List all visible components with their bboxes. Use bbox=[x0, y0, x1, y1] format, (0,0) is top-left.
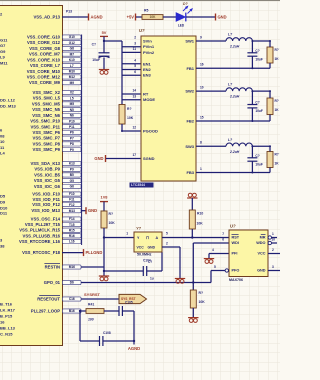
svg-text:LTC3544: LTC3544 bbox=[131, 183, 145, 187]
svg-text:12: 12 bbox=[132, 126, 136, 130]
svg-text:2: 2 bbox=[134, 36, 136, 40]
svg-text:4: 4 bbox=[212, 248, 214, 252]
svg-text:C?: C? bbox=[92, 43, 96, 47]
svg-text:5: 5 bbox=[214, 265, 216, 269]
svg-text:14: 14 bbox=[132, 89, 136, 93]
svg-text:MR: MR bbox=[260, 236, 266, 240]
svg-text:38: 38 bbox=[0, 244, 5, 249]
svg-text:VSS_CORE_M10: VSS_CORE_M10 bbox=[27, 69, 61, 74]
svg-text:2: 2 bbox=[166, 241, 168, 245]
svg-text:R?: R? bbox=[275, 48, 279, 52]
svg-text:M12: M12 bbox=[69, 75, 75, 79]
svg-text:L4: L4 bbox=[0, 151, 5, 156]
svg-text:16: 16 bbox=[200, 63, 204, 67]
svg-text:MAX706: MAX706 bbox=[229, 278, 243, 282]
svg-text:VSS_SMC_L5: VSS_SMC_L5 bbox=[33, 96, 61, 101]
svg-text:VSS_SMC_X2: VSS_SMC_X2 bbox=[33, 90, 61, 95]
svg-text:VSS_IOC_G6: VSS_IOC_G6 bbox=[34, 184, 61, 189]
svg-text:PFI: PFI bbox=[232, 252, 238, 256]
svg-text:6: 6 bbox=[222, 238, 224, 242]
svg-text:L?: L? bbox=[228, 138, 232, 142]
svg-text:1: 1 bbox=[200, 167, 202, 171]
svg-text:1K: 1K bbox=[275, 108, 280, 112]
svg-text:X2: X2 bbox=[70, 91, 74, 95]
svg-text:⊓: ⊓ bbox=[146, 235, 149, 240]
svg-text:L9: L9 bbox=[0, 55, 5, 60]
svg-text:L?: L? bbox=[228, 83, 232, 87]
svg-text:VSS_SMC_P9: VSS_SMC_P9 bbox=[33, 147, 61, 152]
svg-text:FB3: FB3 bbox=[186, 170, 194, 175]
svg-text:VSS_PLLMCLK_R15: VSS_PLLMCLK_R15 bbox=[19, 228, 60, 233]
svg-text:R?: R? bbox=[199, 291, 204, 295]
svg-text:D6: D6 bbox=[70, 281, 74, 285]
svg-text:16: 16 bbox=[0, 320, 5, 325]
svg-text:VSS_SDA_K13: VSS_SDA_K13 bbox=[30, 161, 60, 166]
svg-text:DD_L12: DD_L12 bbox=[0, 98, 16, 103]
svg-text:VCC: VCC bbox=[137, 246, 145, 250]
svg-text:VSS_SMC_P7: VSS_SMC_P7 bbox=[33, 136, 61, 141]
svg-text:RESTIN: RESTIN bbox=[45, 265, 60, 270]
svg-text:G5: G5 bbox=[70, 179, 74, 183]
svg-text:D11: D11 bbox=[0, 211, 8, 216]
svg-text:GND: GND bbox=[257, 269, 266, 273]
svg-text:G10: G10 bbox=[69, 35, 75, 39]
svg-text:M13: M13 bbox=[69, 209, 75, 213]
svg-text:1V8: 1V8 bbox=[101, 194, 109, 199]
svg-text:6: 6 bbox=[134, 70, 136, 74]
svg-text:10: 10 bbox=[272, 238, 276, 242]
svg-text:VSS_OSC_F14: VSS_OSC_F14 bbox=[31, 217, 61, 222]
svg-text:LK_R17: LK_R17 bbox=[0, 308, 16, 313]
svg-text:P6: P6 bbox=[70, 131, 74, 135]
svg-text:VCC: VCC bbox=[257, 252, 265, 256]
svg-text:C?: C? bbox=[255, 154, 259, 158]
svg-text:VSS_IOC_G5: VSS_IOC_G5 bbox=[34, 178, 61, 183]
svg-text:R10: R10 bbox=[197, 212, 203, 216]
svg-text:C_N15: C_N15 bbox=[0, 332, 13, 337]
svg-text:VSS_PLL297_T15: VSS_PLL297_T15 bbox=[25, 222, 61, 227]
svg-text:VSS_SMC_P11: VSS_SMC_P11 bbox=[30, 124, 60, 129]
svg-text:RESETOUT: RESETOUT bbox=[37, 297, 60, 302]
svg-text:2.2uH: 2.2uH bbox=[229, 45, 240, 49]
svg-text:VSS_CORE_G10: VSS_CORE_G10 bbox=[27, 35, 61, 40]
svg-text:GND: GND bbox=[148, 246, 156, 250]
svg-text:AGND: AGND bbox=[128, 346, 140, 351]
svg-text:PLL297_LOOP: PLL297_LOOP bbox=[31, 309, 60, 314]
svg-text:08: 08 bbox=[0, 134, 5, 139]
svg-text:U?: U? bbox=[230, 224, 236, 229]
svg-text:PFO: PFO bbox=[232, 269, 240, 273]
svg-text:VSS_SMC_N6: VSS_SMC_N6 bbox=[32, 113, 60, 118]
svg-text:Y?: Y? bbox=[136, 226, 142, 231]
svg-text:10K: 10K bbox=[199, 300, 206, 304]
svg-text:DD_M13: DD_M13 bbox=[0, 104, 17, 109]
svg-text:R16: R16 bbox=[69, 234, 75, 238]
svg-text:10: 10 bbox=[200, 86, 204, 90]
svg-text:13: 13 bbox=[132, 94, 136, 98]
svg-text:N5: N5 bbox=[70, 108, 74, 112]
svg-text:VSS_CORE_K10: VSS_CORE_K10 bbox=[27, 57, 60, 62]
svg-text:9: 9 bbox=[200, 35, 202, 39]
svg-text:10uF: 10uF bbox=[255, 109, 262, 113]
svg-text:M5: M5 bbox=[70, 102, 75, 106]
svg-text:VSS_IOD_F10: VSS_IOD_F10 bbox=[32, 192, 60, 197]
svg-text:5V: 5V bbox=[102, 30, 107, 35]
svg-text:11: 11 bbox=[133, 47, 137, 51]
svg-text:M11: M11 bbox=[0, 60, 8, 65]
svg-text:GND: GND bbox=[88, 208, 97, 213]
svg-text:RST: RST bbox=[232, 236, 240, 240]
svg-text:SW3: SW3 bbox=[185, 144, 194, 149]
svg-text:2.2uH: 2.2uH bbox=[229, 150, 240, 154]
svg-text:1u: 1u bbox=[150, 277, 154, 281]
svg-text:G8: G8 bbox=[70, 47, 74, 51]
svg-text:L7: L7 bbox=[70, 64, 74, 68]
svg-text:GPO_01: GPO_01 bbox=[44, 280, 61, 285]
svg-text:17: 17 bbox=[132, 153, 136, 157]
svg-text:3: 3 bbox=[272, 265, 274, 269]
svg-text:P8: P8 bbox=[70, 142, 74, 146]
svg-text:VSS_IOD_M13: VSS_IOD_M13 bbox=[31, 208, 60, 213]
svg-text:10K: 10K bbox=[109, 221, 116, 225]
svg-text:VSS_IOD_F11: VSS_IOD_F11 bbox=[33, 197, 61, 202]
svg-text:F11: F11 bbox=[69, 198, 75, 202]
svg-text:P10: P10 bbox=[69, 119, 75, 123]
svg-text:T15: T15 bbox=[69, 223, 75, 227]
svg-text:10K: 10K bbox=[127, 116, 134, 120]
svg-text:M7: M7 bbox=[70, 52, 75, 56]
svg-text:G12: G12 bbox=[69, 41, 75, 45]
svg-text:VSS_RTCCORE_L16: VSS_RTCCORE_L16 bbox=[19, 239, 61, 244]
svg-text:N6: N6 bbox=[70, 114, 74, 118]
svg-text:B_P15: B_P15 bbox=[0, 314, 13, 319]
svg-text:10K: 10K bbox=[150, 15, 157, 19]
svg-text:B16: B16 bbox=[69, 309, 75, 313]
svg-text:D?: D? bbox=[183, 2, 188, 6]
svg-text:D5: D5 bbox=[0, 194, 6, 199]
svg-text:F10: F10 bbox=[69, 192, 75, 196]
svg-text:A: A bbox=[156, 236, 159, 240]
svg-text:VSS_SMC_P8: VSS_SMC_P8 bbox=[33, 141, 61, 146]
svg-text:VSS_CORE_M9: VSS_CORE_M9 bbox=[29, 80, 61, 85]
svg-text:C105: C105 bbox=[125, 301, 133, 305]
svg-text:G6: G6 bbox=[70, 185, 74, 189]
svg-text:G7: G7 bbox=[0, 43, 6, 48]
svg-text:7: 7 bbox=[222, 232, 224, 236]
svg-text:U?: U? bbox=[139, 28, 145, 33]
svg-text:1K: 1K bbox=[275, 162, 280, 166]
svg-text:C?: C? bbox=[255, 101, 259, 105]
svg-text:GND: GND bbox=[218, 15, 227, 20]
svg-text:L16: L16 bbox=[69, 240, 75, 244]
svg-text:RT: RT bbox=[143, 92, 149, 97]
svg-text:3: 3 bbox=[134, 41, 136, 45]
svg-text:R5: R5 bbox=[144, 9, 148, 13]
svg-text:VSS_IOC_B5: VSS_IOC_B5 bbox=[34, 172, 61, 177]
svg-text:EN1: EN1 bbox=[143, 61, 152, 66]
svg-text:AGND: AGND bbox=[91, 15, 103, 20]
svg-text:K13: K13 bbox=[69, 162, 75, 166]
svg-text:P11: P11 bbox=[69, 125, 75, 129]
svg-text:G11: G11 bbox=[0, 38, 8, 43]
svg-text:2: 2 bbox=[272, 248, 274, 252]
svg-text:C108: C108 bbox=[103, 331, 111, 335]
svg-text:M16: M16 bbox=[69, 265, 75, 269]
svg-text:VSS_IOB_P9: VSS_IOB_P9 bbox=[34, 167, 60, 172]
svg-text:VSS_SMC_M5: VSS_SMC_M5 bbox=[32, 101, 61, 106]
svg-text:5: 5 bbox=[134, 64, 136, 68]
svg-text:P9: P9 bbox=[70, 148, 74, 152]
svg-text:8: 8 bbox=[200, 141, 202, 145]
svg-text:LED: LED bbox=[178, 24, 185, 28]
svg-text:5: 5 bbox=[166, 232, 168, 236]
svg-text:EN2: EN2 bbox=[143, 67, 152, 72]
svg-text:WDO: WDO bbox=[256, 241, 265, 245]
svg-text:VSS_CORE_M12: VSS_CORE_M12 bbox=[27, 74, 61, 79]
svg-text:F14: F14 bbox=[69, 217, 75, 221]
svg-text:VSS_SMC_P10: VSS_SMC_P10 bbox=[30, 119, 60, 124]
svg-text:SVin: SVin bbox=[143, 39, 152, 44]
svg-text:R41: R41 bbox=[88, 303, 94, 307]
svg-text:VSS_CORE_M7: VSS_CORE_M7 bbox=[29, 52, 61, 57]
svg-text:10uF: 10uF bbox=[255, 57, 262, 61]
svg-text:VSS_RTCOSC_F18: VSS_RTCOSC_F18 bbox=[22, 250, 61, 255]
svg-text:PVin2: PVin2 bbox=[143, 50, 155, 55]
svg-text:FB2: FB2 bbox=[186, 119, 194, 124]
svg-text:10uF: 10uF bbox=[92, 58, 100, 62]
svg-text:VSS_SMC_N5: VSS_SMC_N5 bbox=[32, 107, 60, 112]
svg-text:FB1: FB1 bbox=[186, 66, 194, 71]
svg-text:G9: G9 bbox=[0, 49, 6, 54]
svg-text:WDI: WDI bbox=[232, 241, 239, 245]
svg-text:VSS_PLLUSB_R16: VSS_PLLUSB_R16 bbox=[23, 233, 61, 238]
svg-text:SW2: SW2 bbox=[185, 89, 194, 94]
svg-text:R?: R? bbox=[109, 212, 114, 216]
svg-text:L5: L5 bbox=[70, 96, 74, 100]
svg-text:10K: 10K bbox=[197, 222, 204, 226]
svg-text:+5V: +5V bbox=[127, 15, 135, 20]
svg-text:2.2uH: 2.2uH bbox=[229, 95, 240, 99]
svg-text:VSS_CORE_L7: VSS_CORE_L7 bbox=[30, 63, 61, 68]
svg-text:BB_L13: BB_L13 bbox=[0, 326, 16, 331]
svg-text:GND: GND bbox=[94, 156, 103, 161]
svg-text:MODE: MODE bbox=[143, 97, 155, 102]
svg-text:R?: R? bbox=[275, 99, 279, 103]
svg-text:D9: D9 bbox=[0, 200, 6, 205]
svg-text:R?: R? bbox=[275, 153, 279, 157]
svg-text:VSS_CORE_G12: VSS_CORE_G12 bbox=[27, 40, 61, 45]
svg-text:100: 100 bbox=[88, 318, 94, 322]
svg-text:L?: L? bbox=[228, 33, 232, 37]
svg-text:SYSRST: SYSRST bbox=[84, 292, 101, 297]
svg-text:P13: P13 bbox=[66, 10, 72, 14]
svg-text:B5: B5 bbox=[70, 173, 74, 177]
svg-text:B_T16: B_T16 bbox=[0, 302, 13, 307]
svg-text:R?: R? bbox=[127, 107, 132, 111]
svg-text:PLLGND: PLLGND bbox=[86, 250, 103, 255]
svg-text:10uF: 10uF bbox=[255, 162, 262, 166]
svg-text:10: 10 bbox=[0, 139, 5, 144]
svg-text:C?: C? bbox=[255, 49, 259, 53]
svg-text:R15: R15 bbox=[69, 228, 75, 232]
svg-text:VSS_IOD_F12: VSS_IOD_F12 bbox=[32, 202, 60, 207]
svg-text:C16: C16 bbox=[69, 297, 75, 301]
svg-text:P9: P9 bbox=[70, 167, 74, 171]
svg-text:VSS_AD_P13: VSS_AD_P13 bbox=[33, 15, 60, 20]
svg-text:P7: P7 bbox=[70, 136, 74, 140]
svg-text:PGOOD: PGOOD bbox=[143, 129, 158, 134]
svg-text:F12: F12 bbox=[69, 203, 75, 207]
svg-text:SGND: SGND bbox=[143, 156, 155, 161]
svg-text:1: 1 bbox=[126, 232, 128, 236]
svg-text:M9: M9 bbox=[70, 81, 75, 85]
svg-text:K10: K10 bbox=[69, 58, 75, 62]
svg-text:EN3: EN3 bbox=[143, 73, 152, 78]
svg-text:C104: C104 bbox=[143, 259, 151, 263]
svg-text:1: 1 bbox=[272, 232, 274, 236]
svg-text:4: 4 bbox=[134, 58, 136, 62]
svg-text:50.0MHz: 50.0MHz bbox=[137, 253, 152, 257]
svg-text:M10: M10 bbox=[69, 69, 75, 73]
svg-text:1K: 1K bbox=[275, 57, 280, 61]
svg-text:VSS_SMC_P6: VSS_SMC_P6 bbox=[33, 130, 61, 135]
svg-text:PVin1: PVin1 bbox=[143, 44, 155, 49]
svg-text:15: 15 bbox=[200, 115, 204, 119]
svg-text:SW1: SW1 bbox=[185, 39, 194, 44]
svg-text:VSS_CORE_G8: VSS_CORE_G8 bbox=[29, 46, 60, 51]
